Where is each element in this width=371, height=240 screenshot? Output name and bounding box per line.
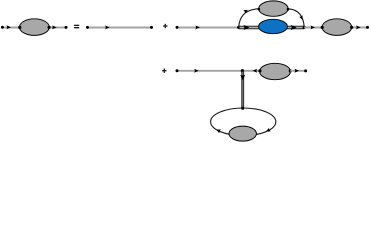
equals sign (74, 25, 79, 29)
arrowhead on G0 line (105, 25, 110, 29)
arrowhead on thick segment before blue blob (244, 25, 250, 30)
arrowhead on term3 right line (295, 69, 300, 73)
node: term2 right blob right vertex dot (350, 26, 353, 29)
interaction arc: left rising curve to upper blob (239, 9, 259, 28)
wire: term2 right propagator line (304, 27, 367, 29)
plus sign (term 2) (163, 24, 167, 28)
node: G0 left endpoint dot (86, 26, 89, 29)
arrowhead pointing left between junction and blob (253, 69, 258, 73)
loop: closed fermion loop ellipse (211, 108, 276, 136)
node: upper blob left attachment dot (258, 8, 261, 11)
node: term2 right blob left vertex dot (321, 26, 324, 29)
node: LHS blob left vertex dot (18, 26, 21, 29)
node: term3 right endpoint dot (304, 69, 307, 72)
blob Sigma: blue self-energy ellipse (259, 19, 288, 33)
node: term2 left endpoint dot (176, 26, 179, 29)
arrowhead on term2 right line before blob (311, 25, 316, 29)
node: right interaction-arc junction dot (303, 26, 306, 29)
wire: LHS right external propagator line (49, 27, 66, 29)
wire: thick dressed propagator segment after blue blob (287, 26, 304, 30)
wire: thick dressed propagator segment into blue blob (239, 26, 260, 30)
node: G0 right endpoint dot (150, 26, 153, 29)
arrowhead on right interaction arc (299, 15, 304, 20)
node: left interaction-arc junction dot (237, 26, 240, 29)
node: LHS left external endpoint dot (1, 26, 4, 29)
blob G: loop bottom dressed propagator ellipse (229, 126, 256, 141)
arrowhead on term2 left line (195, 25, 200, 29)
node: term3 left endpoint dot (176, 69, 179, 72)
arrowhead on left interaction arc (243, 8, 249, 13)
node: tadpole T-junction dot (241, 69, 244, 72)
arrowhead on LHS right leg (52, 25, 57, 29)
arrowhead on term2 rightmost leg (356, 25, 361, 29)
arrowhead pointing down on vertical line (240, 75, 245, 81)
wire: term3 right short line (290, 70, 305, 72)
arrowhead on thick segment after blue blob (291, 25, 297, 30)
node: term3 blob left vertex dot (258, 69, 261, 72)
wire: term3 left bare propagator line (177, 70, 260, 72)
node: LHS right external endpoint dot (65, 26, 68, 29)
wire: LHS left external propagator line (2, 27, 20, 29)
arrowhead on LHS left leg (7, 25, 11, 29)
wire: thick vertical interaction line of tadpole (241, 71, 244, 108)
node: loop top junction dot (241, 107, 244, 110)
wire: term2 left bare propagator line (177, 27, 239, 29)
arrowhead on term3 left line (194, 69, 199, 73)
wire: bare propagator G0 line (88, 27, 152, 29)
interaction arc: right falling curve from upper blob (288, 9, 304, 28)
blob G: LHS dressed propagator ellipse (20, 19, 50, 36)
blob G: term2 right dressed propagator ellipse (322, 19, 352, 36)
node: LHS blob right vertex dot (48, 26, 51, 29)
blob G: term3 dressed propagator ellipse (260, 63, 291, 79)
node: upper blob right attachment dot (287, 8, 290, 11)
blob: upper gray dressed interaction ellipse (259, 1, 288, 16)
plus sign (term 3) (162, 69, 166, 73)
arrowhead on loop left side (pointing up-left) (215, 128, 221, 134)
arrowhead on loop right side (pointing down-left) (265, 128, 271, 134)
node: term2 right external endpoint dot (366, 26, 369, 29)
node: term3 blob right vertex dot (289, 69, 292, 72)
